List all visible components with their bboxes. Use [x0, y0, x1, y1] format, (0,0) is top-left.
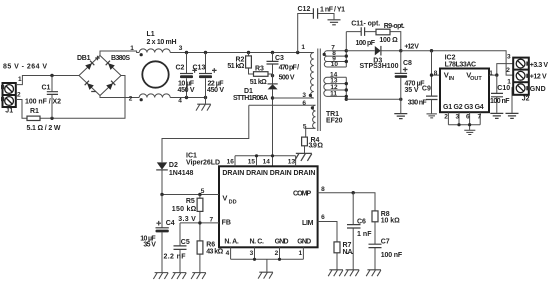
svg-text:STPS3H100: STPS3H100	[360, 63, 399, 70]
svg-text:35 V: 35 V	[405, 87, 419, 94]
svg-text:GND: GND	[297, 239, 311, 246]
svg-text:C3: C3	[275, 55, 284, 62]
svg-text:G1 G2 G3 G4: G1 G2 G3 G4	[443, 104, 484, 111]
svg-text:51 kΩ: 51 kΩ	[227, 63, 244, 70]
svg-text:J1: J1	[5, 108, 13, 115]
svg-text:10: 10	[331, 61, 339, 68]
svg-text:15: 15	[248, 159, 256, 166]
svg-text:DRAIN DRAIN DRAIN DRAIN: DRAIN DRAIN DRAIN DRAIN	[222, 170, 315, 177]
svg-text:35 V: 35 V	[143, 241, 156, 248]
svg-text:13: 13	[288, 159, 296, 166]
svg-text:3.3 V: 3.3 V	[178, 216, 196, 223]
svg-text:C13: C13	[193, 64, 206, 71]
svg-text:R3: R3	[255, 66, 264, 73]
svg-text:100 nF: 100 nF	[381, 252, 403, 259]
svg-text:OUT: OUT	[470, 76, 482, 82]
svg-text:2: 2	[129, 95, 133, 102]
svg-text:EF20: EF20	[326, 117, 343, 124]
svg-text:IC2: IC2	[445, 55, 456, 62]
svg-text:2: 2	[17, 92, 21, 99]
svg-text:1: 1	[301, 44, 305, 51]
svg-text:D2: D2	[169, 162, 178, 169]
svg-text:330 nF: 330 nF	[408, 100, 428, 107]
svg-text:5: 5	[201, 188, 205, 195]
svg-text:DD: DD	[229, 199, 237, 205]
svg-text:150 kΩ: 150 kΩ	[172, 206, 197, 213]
svg-text:450 V: 450 V	[178, 87, 195, 94]
svg-text:IN: IN	[449, 76, 455, 82]
svg-text:1: 1	[298, 250, 302, 257]
svg-text:C1: C1	[42, 84, 51, 91]
svg-text:GND: GND	[530, 86, 546, 93]
svg-text:STTH1R06A: STTH1R06A	[233, 95, 268, 102]
svg-text:C12: C12	[298, 6, 311, 13]
svg-text:C5: C5	[181, 239, 190, 246]
svg-text:3.9 Ω: 3.9 Ω	[309, 143, 324, 150]
svg-text:LIM: LIM	[302, 220, 314, 227]
svg-text:COMP: COMP	[293, 191, 312, 198]
svg-text:14: 14	[263, 159, 271, 166]
svg-text:2.2 nF: 2.2 nF	[164, 253, 187, 260]
svg-text:3: 3	[250, 250, 254, 257]
svg-text:3: 3	[302, 92, 306, 99]
svg-text:85 V - 264 V: 85 V - 264 V	[3, 63, 47, 70]
svg-text:1: 1	[18, 76, 22, 83]
svg-text:+12 V: +12 V	[404, 44, 419, 51]
svg-text:1: 1	[130, 45, 134, 52]
svg-text:100 Ω: 100 Ω	[379, 37, 398, 44]
svg-text:GND: GND	[275, 239, 289, 246]
svg-text:C7: C7	[381, 239, 390, 246]
svg-text:N. C.: N. C.	[249, 239, 264, 246]
svg-text:J2: J2	[522, 96, 530, 103]
svg-text:6: 6	[302, 100, 306, 107]
svg-text:L78L33AC: L78L33AC	[445, 62, 477, 69]
svg-text:2: 2	[506, 67, 510, 74]
svg-text:8: 8	[321, 186, 325, 193]
svg-text:7: 7	[477, 114, 481, 121]
svg-text:43 kΩ: 43 kΩ	[206, 249, 223, 256]
svg-text:10 kΩ: 10 kΩ	[381, 218, 400, 225]
svg-text:51 kΩ: 51 kΩ	[250, 79, 267, 86]
svg-text:C4: C4	[166, 220, 175, 227]
svg-text:4: 4	[226, 250, 230, 257]
svg-text:R5: R5	[186, 198, 195, 205]
svg-text:100 pF: 100 pF	[356, 40, 376, 47]
svg-text:8: 8	[434, 70, 438, 77]
svg-text:2 x 10 mH: 2 x 10 mH	[147, 39, 177, 46]
svg-text:2: 2	[444, 114, 448, 121]
svg-text:3: 3	[507, 54, 511, 61]
svg-text:R6: R6	[206, 241, 215, 248]
svg-text:C2: C2	[176, 64, 185, 71]
svg-text:L1: L1	[147, 31, 155, 38]
svg-text:6: 6	[321, 214, 325, 221]
svg-text:2: 2	[275, 250, 279, 257]
svg-text:N. A.: N. A.	[224, 239, 239, 246]
svg-text:3: 3	[455, 114, 459, 121]
svg-text:R1: R1	[30, 108, 39, 115]
svg-text:C8: C8	[403, 60, 412, 67]
svg-text:1 nF: 1 nF	[357, 231, 372, 238]
svg-text:16: 16	[227, 159, 235, 166]
svg-text:V: V	[222, 193, 227, 202]
svg-text:R9-opt.: R9-opt.	[384, 23, 405, 30]
svg-text:Viper26LD: Viper26LD	[186, 160, 220, 167]
svg-text:FB: FB	[222, 220, 231, 227]
svg-text:1: 1	[489, 70, 493, 77]
svg-text:3: 3	[179, 45, 183, 52]
svg-text:4: 4	[178, 98, 182, 105]
svg-text:100 nF: 100 nF	[490, 98, 510, 105]
svg-text:+3.3 V: +3.3 V	[530, 62, 549, 69]
svg-text:470 pF /: 470 pF /	[279, 65, 300, 72]
svg-text:500 V: 500 V	[279, 74, 295, 81]
svg-text:D1: D1	[244, 88, 253, 95]
svg-text:B380S: B380S	[111, 55, 130, 62]
svg-text:C6: C6	[357, 219, 366, 226]
svg-text:7: 7	[209, 216, 213, 223]
svg-text:+12 V: +12 V	[530, 74, 547, 81]
svg-text:6: 6	[466, 114, 470, 121]
svg-text:N.A.: N.A.	[343, 249, 354, 256]
svg-text:DB1: DB1	[77, 55, 91, 62]
svg-text:5.1 Ω / 2 W: 5.1 Ω / 2 W	[27, 125, 61, 132]
svg-text:C9: C9	[422, 86, 431, 93]
svg-text:1 nF / Y1: 1 nF / Y1	[320, 6, 345, 13]
svg-text:11: 11	[330, 90, 337, 97]
svg-text:C11- opt.: C11- opt.	[351, 20, 380, 27]
svg-text:1N4148: 1N4148	[169, 170, 194, 177]
svg-text:5: 5	[303, 123, 307, 130]
svg-text:C10: C10	[497, 85, 510, 92]
svg-text:100 nF / X2: 100 nF / X2	[25, 99, 61, 106]
svg-text:450 V: 450 V	[207, 87, 224, 94]
